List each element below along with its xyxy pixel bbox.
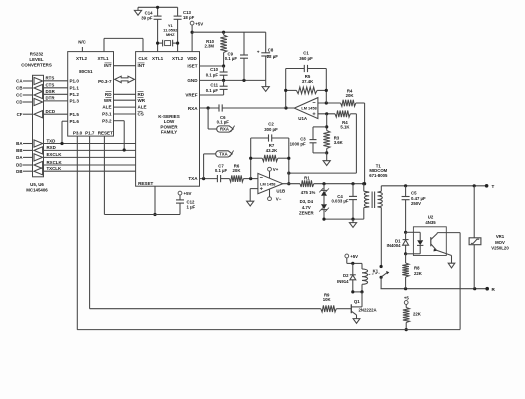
svg-text:BA: BA: [16, 141, 23, 146]
svg-text:DD: DD: [16, 163, 22, 168]
svg-text:WR: WR: [138, 98, 146, 103]
svg-text:+5V: +5V: [350, 254, 358, 259]
svg-text:DCD: DCD: [46, 109, 56, 114]
svg-text:CC: CC: [16, 93, 23, 98]
svg-text:XTL1: XTL1: [97, 56, 109, 61]
svg-text:MOV: MOV: [495, 240, 505, 245]
svg-text:RXD: RXD: [47, 145, 56, 150]
svg-text:INT: INT: [104, 63, 112, 68]
svg-text:2N2222A: 2N2222A: [359, 308, 377, 313]
svg-text:TXA: TXA: [219, 152, 227, 157]
svg-text:FAMILY: FAMILY: [161, 130, 177, 135]
svg-text:ZENER: ZENER: [299, 210, 314, 215]
svg-text:37.4K: 37.4K: [302, 79, 314, 84]
svg-text:0.47 µF: 0.47 µF: [411, 196, 426, 201]
svg-text:20K: 20K: [233, 168, 242, 173]
svg-text:0.1 µF: 0.1 µF: [225, 56, 238, 61]
svg-text:0.1 µF: 0.1 µF: [206, 73, 219, 78]
svg-text:671-8005: 671-8005: [369, 173, 388, 178]
svg-text:MHZ: MHZ: [166, 32, 175, 37]
svg-text:RESET: RESET: [138, 181, 153, 186]
svg-text:TXA: TXA: [188, 176, 198, 181]
svg-text:BB: BB: [16, 148, 22, 153]
svg-text:P1.6: P1.6: [70, 119, 80, 124]
svg-text:IN914: IN914: [337, 279, 349, 284]
svg-text:K1: K1: [373, 269, 379, 274]
svg-text:P1.1: P1.1: [70, 85, 80, 90]
svg-text:C5: C5: [411, 190, 417, 195]
svg-text:CS: CS: [138, 112, 144, 117]
svg-text:RD: RD: [105, 92, 112, 97]
svg-text:P0.3-7: P0.3-7: [98, 79, 112, 84]
svg-text:V250L20: V250L20: [491, 245, 509, 250]
svg-text:+5V: +5V: [195, 21, 203, 26]
svg-text:C10: C10: [210, 67, 218, 72]
svg-text:4.7V: 4.7V: [302, 205, 311, 210]
svg-text:RXCLK: RXCLK: [47, 160, 63, 165]
svg-text:22 µF: 22 µF: [267, 54, 278, 59]
svg-text:Q1: Q1: [354, 299, 360, 304]
svg-text:C12: C12: [187, 199, 195, 204]
svg-text:INT: INT: [138, 63, 146, 68]
svg-text:3.6K: 3.6K: [334, 140, 344, 145]
svg-text:20K: 20K: [346, 93, 355, 98]
svg-text:RS232: RS232: [30, 52, 44, 57]
svg-text:CD: CD: [16, 100, 22, 105]
svg-text:P1.2: P1.2: [70, 92, 80, 97]
svg-text:250V: 250V: [411, 201, 421, 206]
svg-text:+5: +5: [404, 295, 410, 300]
svg-text:VDD: VDD: [187, 56, 197, 61]
svg-text:22K: 22K: [414, 271, 423, 276]
svg-text:1000 pF: 1000 pF: [290, 141, 306, 146]
svg-text:CB: CB: [16, 86, 22, 91]
svg-text:RESET: RESET: [98, 130, 113, 135]
svg-text:LM 1458: LM 1458: [260, 181, 276, 186]
svg-text:C1: C1: [303, 51, 309, 56]
svg-text:5.1K: 5.1K: [340, 125, 350, 130]
svg-text:XTL1: XTL1: [152, 56, 164, 61]
svg-text:WR: WR: [104, 98, 112, 103]
svg-text:V+: V+: [273, 167, 279, 172]
svg-text:18 pF: 18 pF: [183, 15, 195, 20]
svg-text:22K: 22K: [413, 311, 422, 316]
svg-text:DB: DB: [16, 169, 22, 174]
svg-text:39 pF: 39 pF: [141, 16, 153, 21]
svg-text:LM 1458: LM 1458: [301, 106, 317, 111]
svg-text:T: T: [492, 184, 495, 189]
svg-text:0.1 µF: 0.1 µF: [206, 88, 219, 93]
svg-text:80C51: 80C51: [79, 69, 93, 74]
svg-text:V−: V−: [276, 197, 282, 202]
svg-text:N/C: N/C: [78, 40, 86, 45]
svg-text:C8: C8: [268, 48, 274, 53]
svg-text:DTR: DTR: [46, 96, 56, 101]
svg-text:ALE: ALE: [138, 105, 147, 110]
svg-text:VR1: VR1: [496, 234, 505, 239]
svg-text:P3.2: P3.2: [102, 118, 112, 123]
svg-text:P3.1: P3.1: [102, 112, 112, 117]
svg-text:TXCLK: TXCLK: [47, 166, 62, 171]
svg-text:+5V: +5V: [184, 191, 192, 196]
svg-text:DA: DA: [16, 155, 23, 160]
svg-text:+: +: [257, 50, 260, 55]
svg-text:4N35: 4N35: [425, 220, 436, 225]
svg-text:IN4004: IN4004: [387, 243, 401, 248]
svg-text:43.2K: 43.2K: [266, 148, 278, 153]
svg-text:U1B: U1B: [276, 189, 285, 194]
svg-text:U2: U2: [428, 214, 434, 219]
svg-text:LEVEL: LEVEL: [29, 57, 43, 62]
svg-text:XTL2: XTL2: [76, 56, 88, 61]
svg-text:0.1 µF: 0.1 µF: [217, 120, 230, 125]
svg-text:U5, U6: U5, U6: [30, 182, 44, 187]
svg-text:CA: CA: [16, 79, 23, 84]
svg-text:300 pF: 300 pF: [264, 127, 278, 132]
svg-text:XTL2: XTL2: [172, 56, 184, 61]
svg-text:EXCLK: EXCLK: [47, 152, 63, 157]
svg-text:VREF: VREF: [185, 93, 197, 98]
svg-text:D3, D4: D3, D4: [300, 199, 314, 204]
svg-text:0.033 µF: 0.033 µF: [331, 199, 348, 204]
svg-text:K-SERIES: K-SERIES: [158, 114, 179, 119]
svg-text:MC145406: MC145406: [26, 188, 48, 193]
svg-text:RTS: RTS: [46, 76, 55, 81]
svg-text:D2: D2: [343, 273, 349, 278]
svg-text:C2: C2: [268, 122, 274, 127]
svg-text:475 1%: 475 1%: [301, 190, 316, 195]
svg-text:2.3M: 2.3M: [204, 43, 214, 48]
svg-text:R8: R8: [414, 265, 420, 270]
svg-text:CF: CF: [17, 112, 23, 117]
svg-text:P1.5: P1.5: [70, 112, 80, 117]
svg-text:U1A: U1A: [298, 116, 308, 121]
svg-text:P3.0: P3.0: [73, 130, 83, 135]
svg-text:R1: R1: [304, 176, 310, 181]
svg-text:DSR: DSR: [46, 89, 56, 94]
svg-text:RXA: RXA: [220, 127, 229, 132]
svg-text:0.1 µF: 0.1 µF: [215, 168, 228, 173]
svg-text:360 pF: 360 pF: [299, 56, 313, 61]
svg-text:GND: GND: [187, 78, 198, 83]
svg-text:ALE: ALE: [102, 105, 111, 110]
svg-text:CLK: CLK: [138, 56, 148, 61]
svg-text:10K: 10K: [323, 297, 332, 302]
svg-text:CONVERTERS: CONVERTERS: [21, 62, 52, 67]
svg-text:RD: RD: [138, 92, 145, 97]
svg-text:CTS: CTS: [46, 83, 55, 88]
svg-text:RXA: RXA: [188, 106, 198, 111]
svg-text:1 µF: 1 µF: [187, 205, 196, 210]
svg-text:P1.0: P1.0: [70, 78, 80, 83]
svg-text:P1.7: P1.7: [85, 130, 95, 135]
svg-text:ISET: ISET: [187, 64, 197, 69]
svg-text:TXD: TXD: [47, 138, 56, 143]
svg-text:P1.3: P1.3: [70, 99, 80, 104]
svg-text:C11: C11: [210, 83, 218, 88]
svg-text:C13: C13: [183, 10, 191, 15]
